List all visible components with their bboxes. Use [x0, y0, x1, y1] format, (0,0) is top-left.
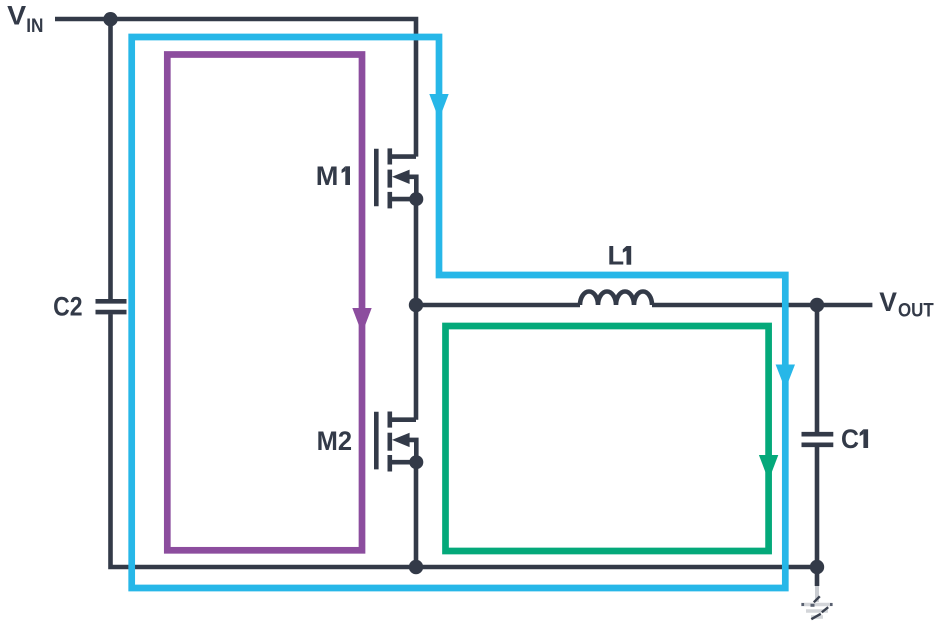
M2 body-diode arrow: [392, 433, 410, 447]
svg-text:IN: IN: [26, 16, 43, 37]
node: VOUT: [810, 298, 824, 312]
svg-text:M: M: [316, 160, 339, 191]
ground stub: [815, 567, 820, 586]
M1 source connection: [390, 197, 417, 202]
transistor M1 gate bar: [374, 149, 379, 207]
loop i2 green rectangle: [446, 326, 769, 551]
capacitor C1 wire bottom: [815, 447, 820, 567]
transistor M2 gate bar: [374, 412, 379, 470]
svg-text:M2: M2: [317, 425, 352, 456]
wire: switch node vertical: [414, 199, 419, 420]
svg-text:L: L: [608, 240, 625, 271]
loop i1 purple rectangle: [167, 55, 362, 551]
capacitor C1 plates: [802, 432, 834, 437]
svg-text:C: C: [841, 423, 859, 454]
svg-text:V: V: [879, 286, 897, 317]
inductor L1: [580, 292, 652, 306]
wire: switch node to VOUT: [416, 303, 580, 308]
loop i3 cyan path: [132, 37, 786, 588]
transistor M1 channel segments: [387, 148, 392, 164]
cyan arrow right (on x=785 segment): [776, 365, 795, 390]
wire: C2 bottom to ground rail: [111, 314, 818, 567]
M1 body connection: [409, 177, 417, 199]
capacitor C1 wire top: [815, 305, 820, 432]
M2 drain connection: [390, 417, 416, 422]
cyan arrow top (on x=439 segment): [429, 94, 448, 120]
node: M2 source: [409, 455, 423, 469]
node: VIN junction: [103, 12, 117, 26]
green arrow (right edge, x=768.6): [759, 455, 778, 481]
svg-text:C2: C2: [53, 291, 82, 322]
wire: VIN rail top: [55, 19, 416, 157]
node: ground rail / C1: [810, 560, 824, 574]
transistor M2 channel segments: [387, 412, 392, 428]
node: M1 source: [409, 192, 423, 206]
black circuit wires: [55, 19, 872, 586]
node: switch node: [409, 298, 423, 312]
capacitor C2 plates: [96, 299, 127, 304]
node: ground rail / M2: [409, 560, 423, 574]
ground symbol: [801, 586, 833, 619]
purple arrow (right edge, x=362): [352, 308, 371, 334]
M2 source connection: [390, 460, 417, 465]
M2 body connection: [409, 440, 417, 462]
svg-text:OUT: OUT: [898, 301, 934, 322]
M1 body-diode arrow: [392, 170, 410, 184]
wire: M2 source to ground rail: [414, 462, 419, 567]
svg-text:V: V: [7, 0, 26, 31]
M1 drain connection: [390, 154, 416, 159]
wire: left branch down to C2: [108, 19, 113, 299]
